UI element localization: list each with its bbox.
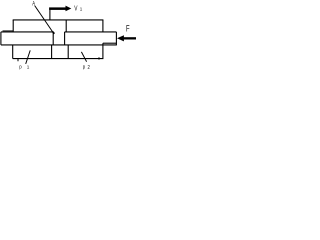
bottom plate bottom edge <box>13 58 104 60</box>
partition 1 <box>51 45 53 59</box>
svg-text:1: 1 <box>27 64 30 69</box>
bottom plate right edge <box>102 43 104 58</box>
v1 arrow shaft <box>49 7 65 9</box>
p2 leader <box>81 52 86 62</box>
piston right wall <box>64 32 66 45</box>
svg-text:p: p <box>19 64 21 70</box>
piston left wall <box>52 32 54 45</box>
v1 arrow head <box>66 6 72 12</box>
svg-text:2: 2 <box>88 65 90 71</box>
svg-text:F: F <box>126 24 130 34</box>
top plate top edge <box>13 19 104 21</box>
svg-text:A: A <box>32 1 35 7</box>
F arrow head <box>117 35 124 41</box>
svg-text:V: V <box>74 5 77 12</box>
partition 2 <box>67 45 69 59</box>
block top edge <box>65 31 117 33</box>
top plate bottom edge left <box>1 31 53 33</box>
bottom plate top edge <box>1 44 117 46</box>
A leader arrow tip <box>52 31 54 33</box>
p1 leader <box>26 50 31 64</box>
v1 arrow stem <box>49 10 51 20</box>
tick left <box>17 59 19 62</box>
block right edge <box>115 32 117 46</box>
top plate seam <box>65 20 67 32</box>
svg-text:p: p <box>83 65 85 71</box>
A leader <box>35 6 53 32</box>
top plate left edge <box>12 20 14 32</box>
F arrow shaft <box>124 37 136 39</box>
bottom plate left edge <box>12 45 14 59</box>
block bottom edge <box>103 42 117 44</box>
left end cap <box>0 32 2 45</box>
top plate right edge <box>102 20 104 32</box>
left rod top line <box>3 30 14 32</box>
tick right <box>98 57 100 59</box>
